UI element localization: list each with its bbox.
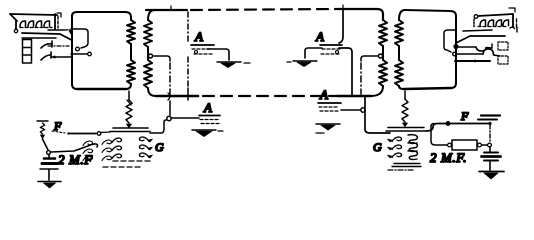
relay G1 right lead to node [150, 120, 166, 133]
transmitter cell (right, lower) [498, 56, 508, 64]
armature wire (right) [455, 60, 490, 63]
wire F down to junction [43, 139, 51, 154]
wire key A2 to ground [305, 48, 322, 58]
hook switch upper lever [41, 41, 69, 48]
capacitor to ground (right) [482, 125, 501, 161]
svg-text:A: A [194, 29, 203, 44]
ground for key A2 [287, 61, 317, 67]
receiver bottom lead (right) [463, 30, 492, 31]
line bottom conductor right (solid) [337, 95, 371, 98]
wire F to relay G1 [52, 131, 110, 135]
receiver bottom lead (left) [48, 29, 71, 30]
key A2 [320, 45, 342, 54]
wire junction to relay armature [51, 144, 98, 152]
relay G1 dashed base [113, 160, 152, 162]
relay G1 right coil [139, 137, 152, 158]
wire receiver to loop (upper, right) [456, 36, 505, 43]
tap dash-dot lead down (right) [360, 63, 362, 94]
terminal circle on wire [446, 122, 450, 126]
transformer T1 winding 1 (loop side) [127, 20, 135, 84]
svg-text:A: A [203, 100, 212, 115]
crossing squiggle at bottom line [168, 93, 170, 100]
svg-text:2 M.F: 2 M.F [58, 152, 93, 167]
left subscriber loop [72, 12, 131, 89]
relay G2 spring to loop [402, 91, 408, 127]
T1 winding 2 center tap [149, 54, 171, 61]
line top conductor right (solid) [337, 9, 383, 20]
line top conductor (solid) [146, 9, 187, 11]
wire receiver to loop (lower) [22, 37, 56, 39]
wire key A4 to node [341, 108, 365, 112]
ground right [479, 162, 504, 179]
transformer T2 winding 1 (line side) [379, 20, 387, 86]
right subscriber loop [404, 10, 456, 89]
capacitor F plates (right) [478, 116, 500, 120]
relay G2 right lead [426, 124, 489, 132]
wire key A2 to bottom line [339, 48, 352, 96]
capacitor 2 M.F. (left) [40, 155, 58, 170]
ground for key A4 [316, 124, 340, 133]
relay G1 left coil [83, 138, 122, 160]
node junction to key A3 [167, 101, 171, 121]
telephone receiver (right station) [474, 8, 517, 32]
wire loop to transmitter terminal circle [71, 52, 91, 56]
spring connection F [37, 121, 48, 139]
relay G1 dashed base second row [103, 166, 140, 168]
node vertical to relay G2 [365, 96, 390, 133]
transformer T2 winding 1 center tap [361, 54, 383, 61]
svg-text:F: F [460, 109, 469, 123]
wire receiver to loop (upper) [22, 33, 71, 40]
transformer T2 winding 2 (loop side) [395, 10, 405, 89]
hook switch lower contact (right) [453, 49, 500, 56]
wire loop to hook terminal circle [72, 29, 88, 51]
svg-text:A: A [315, 29, 324, 44]
transformer T1 winding 2 (line side) [144, 10, 156, 96]
svg-text:2 M.F.: 2 M.F. [430, 150, 467, 165]
relay G2 left coil [388, 137, 402, 158]
relay G2 right coil [408, 135, 417, 160]
line top conductor (dashed) [191, 9, 336, 10]
ground for key A3 [192, 130, 223, 137]
ground for key A1 [217, 62, 250, 68]
relay G2 core bars [386, 128, 426, 132]
dash-dot branch V2 upper [187, 12, 189, 42]
transmitter cell (right, upper) [498, 42, 508, 50]
junction dot right [488, 122, 491, 125]
key A4 [318, 103, 341, 111]
telephone receiver (left station) [10, 13, 61, 33]
condenser box branch [431, 124, 491, 151]
key A1 [191, 45, 214, 54]
wire node to key A3 [171, 117, 199, 119]
dash-dot branch V2 lower [187, 57, 189, 87]
key A2 connecting vertical to top line [339, 5, 343, 43]
tick on top line [170, 6, 172, 10]
tap dash-dot lead down [169, 63, 171, 95]
svg-text:A: A [319, 87, 328, 102]
hook switch upper contact (right) [458, 44, 492, 51]
transmitter battery box [23, 40, 32, 64]
hook switch lower lever [41, 52, 71, 60]
ground left [38, 170, 61, 188]
wire loop to hook terminal circle (right) [444, 30, 458, 52]
stray tick below bottom line [127, 100, 131, 105]
relay G1 core bars [110, 128, 150, 132]
line bottom conductor left (solid) [156, 95, 198, 98]
junction arrow on loop vertical [69, 30, 73, 35]
line bottom conductor (dashed) [203, 95, 336, 97]
relay G2 base bars [392, 164, 421, 167]
key A3 [199, 116, 220, 124]
svg-text:F: F [53, 119, 62, 133]
svg-text:G: G [155, 140, 164, 154]
relay G1 spring to loop [126, 91, 132, 128]
wire key A1 to ground [207, 49, 229, 60]
relay G2 dashed base row [388, 169, 415, 171]
svg-text:G: G [373, 140, 382, 154]
